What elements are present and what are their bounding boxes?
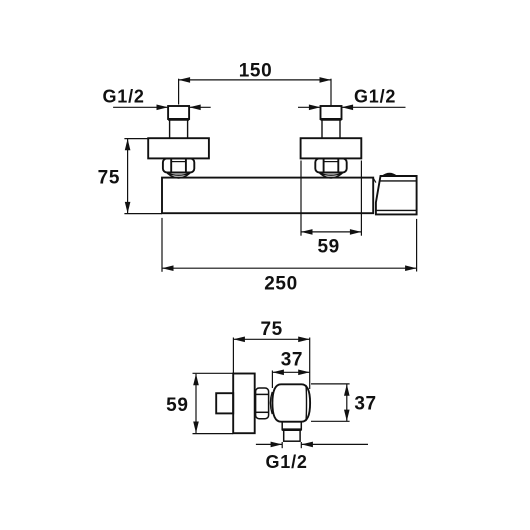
dimension 37 label (side right) [354,393,376,414]
side view washer [270,392,272,414]
side view round body [272,384,310,421]
side view hex nut [256,388,269,419]
handle housing right end [373,176,416,214]
svg-text:150: 150 [239,61,273,82]
body bar (front view) [162,178,373,214]
dimension 75 label [98,168,120,189]
wall flange left [148,138,209,158]
side view outlet stub [282,422,301,441]
G1/2 label right [354,87,396,107]
svg-text:59: 59 [318,237,340,258]
washer arc right [320,173,343,178]
dimension 75 (front view height) [124,139,162,214]
G1/2 leader bottom [256,442,368,448]
dimension 37 (side view body width) [272,371,309,389]
svg-text:75: 75 [98,168,120,189]
svg-text:37: 37 [281,349,303,370]
dimension 250 [162,218,417,272]
dimension 75 (side view depth) [233,338,309,390]
svg-text:75: 75 [261,319,283,340]
dimension 59 (side view height) [193,373,234,433]
handle button dome [382,174,396,177]
dimension 75 label (side) [261,319,283,340]
inlet stub left (G1/2 pipe) [168,106,189,138]
washer arc left [167,173,190,178]
G1/2 leader right [298,106,406,108]
dimension 37 (side view right height) [311,384,350,421]
side view knob [216,393,233,413]
svg-text:59: 59 [166,395,188,416]
inlet stub right (G1/2 pipe) [321,106,342,138]
G1/2 leader left [113,106,211,108]
side view wall plate [233,374,255,434]
dimension 150 label [239,61,273,82]
svg-text:250: 250 [264,274,298,295]
svg-text:G1/2: G1/2 [103,87,145,107]
dimension 59 label (side) [166,395,188,416]
dimension 250 label [264,274,298,295]
G1/2 label bottom [266,452,308,472]
dimension 59 (front view flange width) [301,161,361,236]
svg-text:37: 37 [354,393,376,414]
wall flange right [301,138,362,158]
svg-text:G1/2: G1/2 [354,87,396,107]
G1/2 label left [103,87,145,107]
dimension 37 label (side top) [281,349,303,370]
svg-text:G1/2: G1/2 [266,452,308,472]
dimension 150 [179,79,331,106]
hex nut right [315,158,346,172]
hex nut left [163,158,194,172]
dimension 59 label (front) [318,237,340,258]
